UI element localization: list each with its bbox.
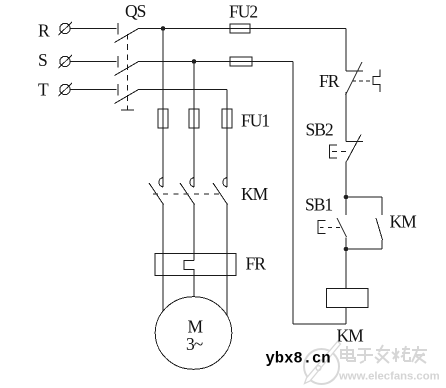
svg-text:FU1: FU1 [241, 111, 269, 131]
svg-text:SB2: SB2 [306, 120, 333, 140]
svg-text:T: T [38, 80, 49, 100]
svg-text:SB1: SB1 [305, 195, 332, 215]
svg-text:KM: KM [390, 212, 418, 232]
svg-text:S: S [38, 50, 47, 70]
svg-text:QS: QS [125, 1, 146, 21]
svg-text:KM: KM [337, 326, 365, 346]
svg-text:FU2: FU2 [229, 2, 257, 22]
svg-text:ybx8.cn: ybx8.cn [266, 350, 331, 368]
svg-text:FR: FR [319, 71, 340, 91]
svg-text:3~: 3~ [186, 334, 203, 354]
svg-text:KM: KM [241, 184, 269, 204]
svg-text:R: R [38, 21, 50, 41]
svg-text:FR: FR [246, 254, 267, 274]
svg-text:www.elecfans.com: www.elecfans.com [338, 371, 440, 383]
